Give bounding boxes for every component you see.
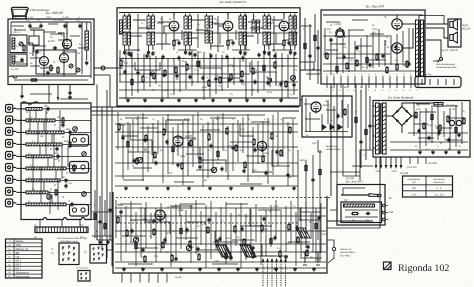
wire run c [134,167,152,169]
svg-text:С₈ 220: С₈ 220 [62,16,70,19]
wire [173,59,175,95]
gap res [304,44,306,49]
svg-text:220: 220 [279,80,285,83]
gap hrun [301,25,312,27]
pot [137,157,142,162]
wire [275,52,277,84]
svg-text:C₈: C₈ [221,220,224,223]
svg-text:1М: 1М [452,108,455,111]
bus [390,141,468,143]
svg-text:ДВ: ДВ [43,105,48,108]
node [172,58,173,59]
wire [145,202,147,248]
small cap b [145,54,148,56]
resistor Rp0 [415,113,417,118]
capacitor Cm6 [187,142,190,144]
pin [68,246,70,248]
svg-text:Гн₆-Гн₉: Гн₆-Гн₉ [424,73,432,76]
wire [63,63,65,76]
svg-text:КВ 2: КВ 2 [16,264,22,267]
wire [49,191,51,214]
capacitor Cf5 [174,257,177,259]
pin 4 [276,259,278,287]
ground [229,98,231,100]
node [204,146,205,147]
switch contact S6 [6,164,13,172]
svg-text:Л₅: Л₅ [83,251,87,254]
IF transformer T5 lower [263,32,266,45]
pin [93,253,94,254]
resistor Rf22 [315,224,317,229]
wire down1 [21,85,23,96]
resistor Ra4 [366,58,368,63]
svg-text:г: г [139,281,140,284]
ground [294,267,296,269]
wire run [196,29,210,31]
wire [257,61,259,93]
mid bus B [119,32,298,34]
svg-text:R₅: R₅ [218,85,221,88]
capacitor Cm4 [165,140,168,142]
wire [264,45,266,50]
node [43,75,45,77]
EPU block border [337,185,385,226]
band vert [47,158,49,167]
pin arrow [280,259,282,262]
tube V1c [62,39,71,48]
svg-text:з: з [374,73,376,76]
pin [98,253,99,254]
svg-text:R₁: R₁ [417,104,420,107]
table line [6,250,43,252]
bus band-IF 2 [91,110,299,112]
wire tallB [273,16,275,52]
wire run fm [14,29,26,31]
svg-text:C₇: C₇ [149,235,152,238]
pin [73,259,75,261]
resistor Rp4 [447,117,449,122]
resistor Rp3 [439,126,441,131]
cap right [311,178,314,180]
node [168,175,169,176]
wire [336,36,338,74]
node [132,65,133,66]
capacitor Cf1 [130,229,133,231]
resistor Rf15 [252,253,254,258]
wire [319,150,321,262]
pin arrow [271,259,273,262]
wire [233,57,235,85]
cathode cap [231,41,234,43]
node [142,81,143,82]
wire [282,125,284,157]
wire [232,123,234,171]
resistor Rf6 [171,256,173,261]
IF transformer T4 lower [239,32,242,45]
res band [62,118,64,122]
wire [300,207,302,257]
node [212,97,213,98]
node [132,131,133,132]
wire [262,121,264,155]
svg-text:СБВ: СБВ [46,16,51,19]
capacitor Ca2 [355,46,358,48]
squiggle [9,76,17,78]
wire [245,214,247,260]
resistor Rb5 [175,68,177,73]
resistor Rf1 [126,231,128,236]
strip tick [42,227,44,233]
capacitor C3 [63,24,66,26]
wire run f [300,257,322,259]
svg-text:0,01: 0,01 [215,75,220,78]
capacitor Cf16 [295,226,298,228]
coil L1a [12,38,15,49]
wire cathode [227,33,229,41]
switch contact S7 [6,176,13,184]
wire [402,103,434,107]
resistor Rb2 [142,77,144,82]
strip tick [77,227,79,233]
wire run fm [16,63,28,65]
res band [69,142,71,146]
svg-text:C₂: C₂ [168,118,171,121]
svg-text:220: 220 [227,145,233,148]
wavy top [21,102,39,105]
wire [312,155,314,252]
padder [47,195,52,200]
svg-text:Бл. Блок ИЧАМ-ПЧ: Бл. Блок ИЧАМ-ПЧ [220,0,248,4]
switch contact S4 [6,140,13,148]
bus [408,132,468,134]
IF transformer T4 upper [239,16,242,29]
svg-text:C₇: C₇ [280,118,283,121]
resistor Rb0 [120,61,122,66]
node [191,207,192,208]
wire [111,107,113,266]
svg-text:1М: 1М [77,52,80,55]
bus y58 [119,58,298,60]
wire [283,46,285,51]
wire run fm [62,51,76,53]
wire spk3 [426,40,441,57]
wire run f [212,263,238,265]
small cap [64,184,67,186]
pinout box 3 [78,271,90,282]
resistor Ra2 [346,64,348,69]
wire run c [140,127,158,129]
pin ext [340,84,342,89]
strip tick [59,227,61,233]
band vert [67,146,69,167]
wire [227,46,229,51]
bus bottom long1 [97,239,113,241]
wire [185,14,187,17]
svg-text:В₁: В₁ [9,244,11,247]
resistor Rf20 [297,238,299,243]
node [192,131,193,132]
IF transformer T2 lower [147,32,150,45]
bus [323,53,390,55]
IF transformer T2 upper [147,16,150,29]
Tr1 taps [373,105,376,107]
slanted cable 2 [240,245,256,257]
svg-text:С₆: С₆ [16,45,19,48]
wire t7 [206,14,208,17]
capacitor Ca3 [368,63,371,65]
wire [16,108,26,110]
wire ext [107,249,114,251]
node [120,123,121,124]
wire [455,105,457,147]
wire [408,28,410,62]
capacitor Cm10 [231,146,234,148]
svg-text:1М: 1М [144,148,147,151]
wire run [190,19,205,21]
resistor R2 [50,66,52,71]
svg-text:C₇: C₇ [183,16,186,19]
FM tuner block border [8,19,94,85]
pin 5 [280,259,282,287]
wire [132,119,134,161]
wire t8 [253,14,255,21]
resistor Rm19 [289,128,291,133]
label eds [48,196,50,198]
tube L8 6P14P [392,43,402,53]
wire run f [136,247,158,249]
wire [124,14,126,17]
wire run c [126,117,148,119]
wire run p [448,117,464,119]
afb tick [130,273,132,282]
wire run f [196,249,218,251]
coil L4 right tall [85,31,88,50]
IF transformer T8 [252,20,255,33]
wire run [272,19,283,21]
wire [127,122,129,170]
wire lb [94,190,96,238]
svg-text:C₄: C₄ [128,149,131,152]
node [239,251,240,252]
wire [290,45,292,50]
wire [320,203,322,253]
svg-text:Л₁: Л₁ [49,35,53,39]
jack arrow [318,140,322,152]
cathode resistor [173,41,175,46]
ground [275,267,277,269]
wire [187,118,189,176]
wire fm x [12,25,24,27]
svg-text:4ГД-28: 4ГД-28 [462,28,471,31]
wire anode [173,14,175,20]
switch contact S9 [6,199,13,207]
strip tick [68,227,70,233]
wire spk2 [426,28,448,38]
wire [425,108,427,146]
wire [227,56,229,88]
wire run [138,27,150,29]
wire [157,120,159,154]
wire det-af2 [300,61,314,63]
node [192,81,193,82]
svg-text:0,05: 0,05 [150,70,155,73]
wire down3 [69,85,71,92]
fm below runs [30,93,52,95]
afb tick [166,273,168,282]
resistor Rb11 [241,72,243,77]
node [143,230,144,231]
resistor Rf3 [144,257,146,262]
band vert [39,146,41,155]
band coil L17 [26,167,66,170]
node [96,106,97,107]
vert wire right1 [81,22,83,74]
strip tick [85,227,87,233]
capacitor Cp4 [457,133,460,135]
capacitor Cf3 [152,219,155,221]
svg-text:Напряжение: Напряжение [408,178,421,181]
rb cap [359,140,362,142]
wire [245,59,247,99]
slanted cable 3b [298,228,303,239]
wire rb [369,96,371,150]
band dot [46,112,47,113]
wire stub [219,33,221,44]
node [276,162,277,163]
svg-text:R₄: R₄ [30,62,33,65]
wire lb [99,196,101,240]
wire [402,31,404,63]
twin trim box2 [70,162,89,174]
jack Gn1 [304,252,306,263]
capacitor Ct4b [267,52,270,54]
cap band [46,107,49,109]
wire ind extra [327,100,329,124]
pot2 [211,167,216,172]
rb res [355,118,357,123]
wire run c [168,119,186,121]
wire run a [336,57,354,59]
resistor Rf5 [162,243,164,248]
bus [115,207,326,209]
ground [142,267,144,269]
bus band-IF 1 [91,106,299,108]
band coil L15 [26,143,62,146]
svg-text:L₆: L₆ [301,242,303,245]
resistor Rm2 [136,159,138,164]
wire af down2 [336,84,338,184]
bus [115,261,326,263]
node [228,175,229,176]
wire [390,37,392,65]
svg-text:C₅: C₅ [268,51,271,54]
resistor Ra8 [406,62,408,67]
svg-text:8Ω: 8Ω [344,86,347,89]
wire run c [210,117,236,119]
wire run a [326,21,340,23]
capacitor Ca5 [394,45,397,47]
wire run fm [30,57,42,59]
lb cap [98,220,101,222]
svg-text:L₁₃: L₁₃ [28,176,31,179]
svg-text:R₉: R₉ [462,110,465,113]
svg-text:R₉: R₉ [160,149,163,152]
resistor Rm7 [181,164,183,169]
resistor Ra6 [386,68,388,73]
resistor Rf8 [189,242,191,247]
wire [160,203,162,253]
capacitor Cp1 [427,136,430,138]
tube Л₂ 6И1П [169,21,179,31]
ground [144,98,146,100]
trimmer [73,127,78,132]
ground [161,98,163,100]
node [202,89,203,90]
wire [205,206,207,268]
ground [69,95,71,97]
node [292,81,293,82]
svg-text:М: М [50,188,52,191]
wire [152,123,154,163]
pin ext [333,84,335,89]
svg-text:L₅: L₅ [78,16,80,19]
strip tick [71,227,73,233]
wire run c [246,155,266,157]
svg-text:2,2к: 2,2к [240,83,246,86]
ground [246,98,248,100]
resistor Rb12 [252,69,254,74]
wire run [272,49,292,51]
ground [199,267,201,269]
strip tick [39,227,41,233]
wire [191,50,193,86]
svg-text:0,01: 0,01 [168,172,173,175]
node [232,65,233,66]
svg-text:В₃: В₃ [9,252,11,255]
wire tallB [197,14,199,48]
resistor Rf7 [180,229,182,234]
resistor Rf14 [243,240,245,245]
capacitor Cb8 [227,78,230,80]
svg-text:L₁₁: L₁₁ [28,152,31,155]
pin [98,258,99,259]
band vert [55,170,57,179]
wire run f [232,239,254,241]
node [262,97,263,98]
capacitor C9 [68,91,71,93]
wire run c [240,183,262,185]
wire [197,112,199,158]
svg-text:В₄: В₄ [9,256,11,259]
ground [256,267,258,269]
IF top bus [119,12,298,14]
svg-text:КВ 1: КВ 1 [16,260,22,263]
IF transformer T3 lower [184,32,187,45]
wire anode1 [30,30,44,57]
capacitor Cf2 [141,248,144,250]
node [299,243,300,244]
svg-text:L₁₄: L₁₄ [32,188,35,191]
svg-text:Омическое: Омическое [433,178,445,181]
bus [323,35,392,37]
speaker Gr2 [450,35,453,41]
wire anode [283,14,285,20]
svg-text:Бл. Эон 2УР: Бл. Эон 2УР [366,5,385,9]
svg-text:Л₂: Л₂ [50,252,54,255]
wire down2 [48,85,50,104]
wire [16,179,26,181]
resistor Rm14 [244,163,246,168]
